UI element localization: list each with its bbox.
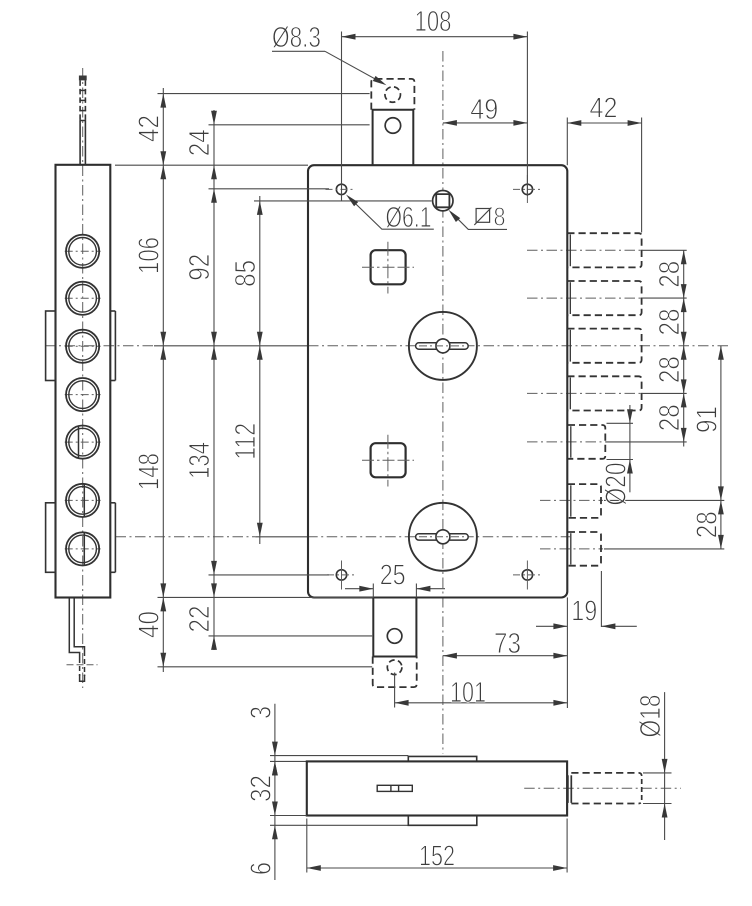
keyhole slot divider 1	[390, 785, 392, 791]
side circle 4 centerline	[65, 394, 101, 396]
dim 6 arrow (outside)	[272, 825, 278, 839]
ext bolt7 center right	[604, 548, 724, 550]
dim 25 line left part	[345, 588, 373, 590]
shaft solid cap left	[567, 775, 569, 803]
ext tab right top	[415, 584, 417, 598]
svg-text:28: 28	[654, 309, 686, 336]
ext bolt4 center right	[642, 392, 687, 394]
circle5 chord	[78, 426, 80, 458]
side view bottom rod hook	[80, 675, 85, 682]
svg-text:22: 22	[184, 606, 216, 633]
dim 22 arrows (outside)	[211, 583, 217, 597]
circle6 chord	[83, 484, 85, 517]
ext bolt1 center right	[642, 249, 687, 251]
dim 42 right line	[567, 122, 641, 124]
square 1 vertical centerline	[387, 242, 389, 294]
svg-text:49: 49	[470, 94, 498, 126]
side view bottom rod right edge	[74, 598, 84, 651]
svg-text:40: 40	[133, 611, 165, 638]
keyhole slot divider 2	[398, 785, 400, 791]
side view upper left tab	[46, 311, 56, 381]
cylinder 2 slot dashdot	[419, 536, 467, 538]
shaft solid cap right	[570, 775, 572, 803]
svg-text:148: 148	[133, 453, 165, 490]
side circle 3 centerline	[65, 345, 101, 347]
side view bottom rod hidden right	[84, 651, 86, 676]
dim 73 line	[443, 655, 568, 657]
side view bolt circle 7 inner	[69, 535, 97, 563]
svg-text:25: 25	[380, 559, 406, 591]
dim 42 left arrows	[160, 94, 166, 108]
deadbolt 2	[567, 281, 641, 315]
svg-text:19: 19	[571, 595, 597, 627]
svg-text:152: 152	[419, 840, 455, 872]
side view top rod solid left edge	[79, 121, 81, 165]
key cylinder 2 slot bar	[416, 534, 469, 540]
dim 92 arrows	[211, 189, 217, 203]
bottom tab hidden hole	[387, 660, 402, 675]
svg-text:108: 108	[415, 6, 452, 38]
side view vertical centerline	[82, 68, 84, 688]
side view bolt circle 6 inner	[69, 487, 97, 515]
svg-text:101: 101	[450, 677, 486, 709]
ext line y=666.8 tab hidden hole	[158, 666, 373, 668]
side circle 1 centerline	[65, 250, 101, 252]
dim 91 arrows	[718, 346, 724, 360]
side view bolt circle 4 outer	[66, 378, 99, 411]
ext body right top	[566, 118, 568, 166]
dim 25 line right part	[416, 588, 445, 590]
key cylinder 2 center circle	[436, 530, 450, 544]
bottom tab hole	[387, 629, 402, 644]
main body plate	[308, 165, 567, 597]
dim 28 lower arrows	[718, 500, 724, 514]
bolt 6 inner face line	[570, 485, 572, 516]
side circle 5 centerline	[65, 441, 101, 443]
dim 40 arrows	[160, 597, 166, 611]
top tab dashed part	[371, 79, 414, 110]
bottom tab solid part	[373, 597, 416, 656]
side circle 6 centerline	[65, 499, 101, 501]
hole bottom-right cross	[513, 574, 541, 576]
lower cylinder centerline through body	[307, 536, 570, 538]
ext bottom view right	[566, 819, 568, 873]
deadbolt 4 inner face line	[569, 378, 571, 410]
svg-text:Ø20: Ø20	[600, 463, 632, 506]
bolt5 centerline	[527, 441, 605, 443]
spindle square hole 2	[371, 443, 406, 477]
bolt 6	[568, 484, 601, 518]
deadbolt 3 inner face line	[569, 330, 571, 362]
ext line y=125 (tab hole)	[209, 124, 370, 126]
dim line x=683.7 (28 chain)	[683, 250, 685, 446]
shaft hidden bottom edge	[571, 803, 638, 805]
svg-text:106: 106	[133, 237, 165, 274]
dim 49 line	[443, 122, 528, 124]
side view bolt circle 5 outer	[66, 426, 99, 459]
side view bolt circle 4 inner	[69, 381, 97, 409]
deadbolt 1 inner face line	[569, 234, 571, 266]
ext line body bottom left	[158, 596, 374, 598]
svg-text:28: 28	[654, 404, 686, 431]
svg-text:Ø8.3: Ø8.3	[272, 22, 321, 54]
hole bottom-left cross	[327, 574, 356, 576]
dim 112 arrows	[257, 346, 263, 360]
deadbolt 2 inner face line	[569, 282, 571, 314]
side view top rod dashed left edge	[79, 80, 81, 120]
center square hole (8mm) square	[436, 194, 449, 207]
dim 85 arrows	[257, 201, 263, 215]
ext bolt5 bottom right	[607, 459, 634, 461]
dim 106 arrows	[160, 165, 166, 179]
body right edge extension down	[566, 597, 568, 708]
corner hole top-left	[336, 184, 346, 194]
svg-text:28: 28	[691, 511, 723, 538]
svg-text:92: 92	[184, 254, 216, 281]
bolt2 centerline	[527, 297, 642, 299]
svg-text:32: 32	[245, 775, 277, 802]
dim 32 arrows	[272, 761, 278, 775]
shaft hidden top edge	[571, 772, 638, 774]
circle7 chord	[83, 533, 85, 566]
dim 101 line	[395, 702, 568, 704]
side view faceplate	[56, 165, 111, 598]
dim line Ø20	[629, 405, 631, 492]
svg-text:112: 112	[230, 423, 262, 460]
side view lower left tab	[46, 503, 56, 573]
top tab hole hidden circle	[385, 87, 401, 103]
svg-text:3: 3	[245, 706, 277, 719]
side view bolt circle 3 outer	[66, 330, 99, 363]
label square8 symbol	[476, 209, 490, 223]
center square hole (8mm) circle	[433, 191, 453, 211]
corner hole top-right	[522, 184, 532, 194]
key cylinder 2 circle	[409, 503, 477, 571]
side view top rod dashed right edge	[84, 80, 86, 120]
ext bolts67 right end	[600, 571, 602, 627]
key cylinder 1 slot bar	[416, 343, 469, 349]
side view bolt circle 3 inner	[69, 333, 97, 361]
bottom view bottom plate line	[270, 824, 408, 826]
main horizontal centerline through body to right	[308, 345, 729, 347]
bottom view top plate extension line lower	[270, 760, 307, 762]
bolt6 centerline	[540, 499, 603, 501]
ext bottom view left	[306, 819, 308, 873]
dim 19 line right part	[601, 625, 636, 627]
side view bolt circle 2 inner	[69, 285, 97, 313]
side view bolt circle 1 outer	[66, 235, 99, 268]
ext tab left top	[372, 584, 374, 598]
bottom rod cross tick	[67, 664, 98, 666]
svg-text:134: 134	[184, 442, 216, 479]
bottom view top plate extension line upper	[270, 755, 408, 757]
ext line y=635.9 tab hole	[209, 635, 373, 637]
key cylinder 1 circle	[409, 312, 477, 380]
bottom view body	[307, 761, 567, 815]
ext line y=201 square8 center	[254, 200, 432, 202]
side circle 2 centerline	[65, 297, 101, 299]
dim 24 arrows (outside)	[211, 111, 217, 125]
bottom view shaft centerline	[524, 787, 681, 789]
dim 148 arrows	[160, 346, 166, 360]
deadbolt 4	[567, 376, 641, 410]
deadbolt 5 (short)	[568, 425, 606, 459]
top tab hole	[385, 118, 401, 134]
svg-text:91: 91	[691, 406, 723, 433]
dim 3 arrows (outside)	[272, 742, 278, 756]
dim line Ø18	[664, 692, 666, 840]
svg-text:42: 42	[133, 115, 165, 142]
side view bottom rod left edge	[69, 598, 79, 658]
square 2 horizontal centerline	[362, 459, 414, 461]
ext bolt5 top right	[607, 422, 634, 424]
deadbolt 5 (short) inner face line	[570, 426, 572, 457]
ext shaft top	[643, 772, 672, 774]
corner hole bottom-right	[522, 570, 532, 580]
bottom view top tab	[408, 756, 476, 761]
corner hole bottom-left	[336, 570, 346, 580]
ext bolt5 center right	[605, 441, 686, 443]
main horizontal centerline solid extension zone	[154, 345, 308, 347]
bolt 7 inner face line	[570, 533, 572, 564]
bolt4 centerline	[527, 392, 642, 394]
leader square8	[451, 212, 507, 229]
ext line y=93.6 (rod top / hidden hole)	[158, 93, 370, 95]
bottom view bottom tab	[408, 816, 477, 826]
side view bolt circle 2 outer	[66, 282, 99, 315]
deadbolt 1	[567, 233, 641, 267]
main horizontal centerline left dashdot	[45, 345, 154, 347]
dim line x=163.3 (42/106/148/40)	[162, 88, 164, 672]
ext line body top left	[115, 164, 308, 166]
key cylinder 1 center circle	[436, 339, 450, 353]
spindle square hole 1	[371, 250, 406, 284]
side view bottom rod hidden left	[79, 658, 81, 676]
lower cylinder centerline left	[116, 536, 256, 538]
svg-text:42: 42	[590, 93, 618, 125]
side view upper right tab	[110, 310, 115, 312]
deadbolt 3	[567, 329, 641, 363]
bottom view keyhole slot	[377, 785, 412, 791]
svg-text:28: 28	[654, 356, 686, 383]
square 2 vertical centerline	[387, 435, 389, 487]
svg-text:24: 24	[184, 129, 216, 156]
side view bolt circle 6 outer	[66, 484, 99, 517]
dim 134 arrows	[211, 346, 217, 360]
top tab solid part	[373, 110, 414, 165]
side view bolt circle 1 inner	[69, 238, 97, 266]
side view top rod solid right edge	[84, 121, 86, 165]
lower cylinder centerline solid extension	[255, 536, 307, 538]
leader Ø8.3 underline	[272, 50, 325, 52]
main view vertical centerline	[442, 51, 444, 754]
svg-text:Ø18: Ø18	[635, 695, 667, 738]
dim line x=720.9 (91/28)	[720, 346, 722, 549]
dim 19 line left part	[536, 625, 567, 627]
ext line hole TL vertical	[341, 32, 343, 202]
shaft hidden end	[639, 773, 642, 804]
leader Ø8.3 diagonal	[325, 51, 383, 83]
bolt 7	[568, 532, 601, 566]
dim line x=259.8 (85/112)	[259, 196, 261, 544]
svg-text:85: 85	[230, 260, 262, 287]
side view bolt circle 5 inner	[69, 428, 97, 456]
side view top rod cap	[79, 76, 87, 81]
ext bolts right end top	[641, 118, 643, 233]
ext line y=574.9 hole BL	[209, 574, 330, 576]
ext bolt2 center right	[642, 297, 687, 299]
bottom tab dashed part	[373, 657, 417, 688]
side view lower right tab	[110, 502, 115, 504]
ext bottom tab center	[394, 673, 396, 708]
leader Ø6.1	[349, 197, 434, 229]
ext bolt6 center right	[604, 499, 724, 501]
dim line x=214 (24/92/134/22)	[213, 110, 215, 650]
bolt1 centerline	[527, 249, 642, 251]
cylinder 1 slot dashdot	[419, 345, 467, 347]
ext line hole TR vertical	[526, 32, 528, 197]
svg-text:Ø6.1: Ø6.1	[386, 202, 432, 234]
svg-text:6: 6	[245, 862, 277, 875]
svg-text:8: 8	[494, 201, 506, 231]
svg-text:28: 28	[654, 261, 686, 288]
ext shaft bottom	[643, 803, 672, 805]
ext line y=188.5 hole TL	[209, 188, 330, 190]
side view top rod rungs	[79, 89, 86, 91]
hole top-right cross	[513, 188, 541, 190]
bottom view bottom plate ext line	[270, 815, 307, 817]
side circle 7 centerline	[65, 548, 101, 550]
dim 108 line	[342, 36, 528, 38]
bolt7 centerline	[540, 548, 603, 550]
dim 152 line	[307, 867, 567, 869]
dim line x=274.9 (3/32/6)	[274, 704, 276, 880]
hole top-left cross	[326, 188, 355, 190]
svg-text:73: 73	[494, 628, 521, 660]
square 1 horizontal centerline	[362, 266, 414, 268]
side view bolt circle 7 outer	[66, 532, 99, 565]
